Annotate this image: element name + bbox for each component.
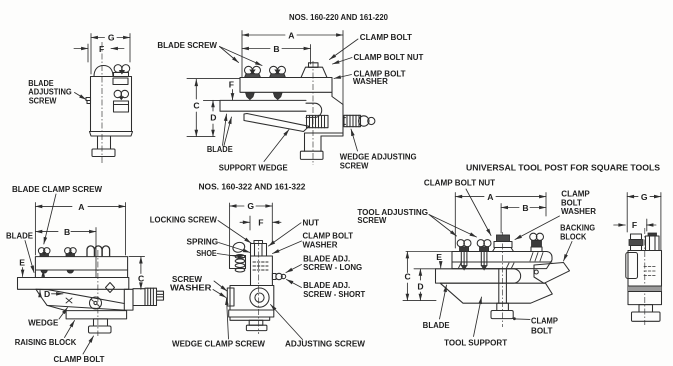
svg-text:SCREW: SCREW	[357, 216, 387, 225]
svg-text:CLAMP BOLT: CLAMP BOLT	[54, 355, 105, 364]
svg-text:SCREW - LONG: SCREW - LONG	[303, 263, 362, 272]
svg-text:WEDGE ADJUSTING: WEDGE ADJUSTING	[340, 153, 417, 162]
svg-text:BOLT: BOLT	[531, 326, 553, 335]
svg-text:BLADE ADJ.: BLADE ADJ.	[303, 254, 350, 263]
svg-text:CLAMP BOLT NUT: CLAMP BOLT NUT	[424, 178, 495, 187]
svg-text:ADJUSTING SCREW: ADJUSTING SCREW	[285, 339, 366, 348]
svg-text:B: B	[522, 203, 528, 213]
svg-text:BLADE ADJ.: BLADE ADJ.	[303, 281, 350, 290]
svg-text:B: B	[64, 227, 70, 237]
svg-text:LOCKING SCREW: LOCKING SCREW	[150, 216, 218, 225]
svg-text:D: D	[44, 289, 50, 299]
svg-text:WASHER: WASHER	[561, 207, 596, 216]
svg-text:G: G	[641, 192, 648, 202]
svg-text:WASHER: WASHER	[303, 240, 338, 249]
svg-text:D: D	[210, 112, 216, 122]
svg-text:A: A	[78, 202, 84, 212]
svg-text:C: C	[405, 272, 411, 282]
svg-text:BLADE SCREW: BLADE SCREW	[157, 41, 217, 50]
svg-text:A: A	[288, 30, 294, 40]
svg-text:UNIVERSAL TOOL POST FOR SQUARE: UNIVERSAL TOOL POST FOR SQUARE TOOLS	[466, 162, 660, 172]
svg-text:B: B	[273, 44, 279, 54]
svg-text:SCREW: SCREW	[29, 97, 57, 106]
svg-text:A: A	[487, 192, 493, 202]
svg-text:G: G	[247, 201, 254, 211]
svg-text:C: C	[138, 273, 144, 283]
svg-text:BLADE CLAMP SCREW: BLADE CLAMP SCREW	[12, 185, 103, 194]
svg-text:BLADE: BLADE	[423, 321, 450, 330]
svg-text:F: F	[229, 80, 234, 90]
svg-text:F: F	[258, 217, 263, 227]
svg-text:CLAMP BOLT: CLAMP BOLT	[303, 232, 354, 241]
svg-text:SUPPORT WEDGE: SUPPORT WEDGE	[219, 164, 288, 173]
svg-text:NOS. 160-220 AND 161-220: NOS. 160-220 AND 161-220	[289, 12, 388, 22]
svg-text:SPRING: SPRING	[187, 238, 219, 247]
svg-text:NOS. 160-322 AND 161-322: NOS. 160-322 AND 161-322	[199, 181, 306, 191]
svg-text:G: G	[108, 33, 115, 43]
svg-text:F: F	[632, 220, 637, 230]
svg-text:BLADE: BLADE	[6, 232, 33, 241]
svg-text:BLOCK: BLOCK	[560, 233, 587, 242]
svg-text:D: D	[417, 282, 423, 292]
svg-text:CLAMP BOLT NUT: CLAMP BOLT NUT	[354, 53, 424, 62]
svg-text:E: E	[19, 258, 25, 268]
svg-text:SHOE: SHOE	[196, 249, 216, 258]
svg-text:TOOL SUPPORT: TOOL SUPPORT	[444, 338, 507, 347]
svg-text:SCREW - SHORT: SCREW - SHORT	[303, 290, 365, 299]
svg-text:CLAMP BOLT: CLAMP BOLT	[360, 33, 412, 42]
svg-text:ADJUSTING: ADJUSTING	[28, 87, 72, 96]
svg-text:NUT: NUT	[303, 219, 320, 228]
svg-text:F: F	[99, 44, 104, 54]
svg-text:C: C	[193, 101, 199, 111]
svg-text:RAISING BLOCK: RAISING BLOCK	[15, 338, 77, 347]
svg-text:BOLT: BOLT	[561, 198, 582, 207]
svg-text:BLADE: BLADE	[207, 145, 233, 154]
svg-text:WEDGE CLAMP SCREW: WEDGE CLAMP SCREW	[172, 339, 266, 348]
svg-text:SCREW: SCREW	[340, 162, 369, 171]
svg-text:WASHER: WASHER	[353, 77, 388, 86]
svg-text:BACKING: BACKING	[560, 224, 595, 233]
svg-text:E: E	[436, 252, 442, 262]
svg-text:WASHER: WASHER	[170, 284, 212, 293]
svg-text:CLAMP: CLAMP	[531, 316, 558, 325]
svg-text:CLAMP: CLAMP	[561, 189, 590, 198]
svg-text:SCREW: SCREW	[172, 275, 203, 284]
svg-text:WEDGE: WEDGE	[28, 318, 58, 327]
